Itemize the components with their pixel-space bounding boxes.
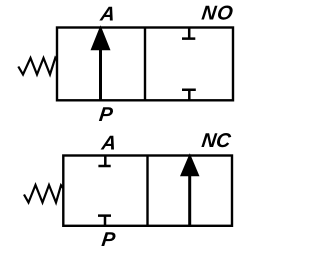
valve NC return spring [24,185,64,203]
valve NC blocked port T bottom [98,215,111,226]
valve NO return spring [18,58,57,75]
valve NO flow arrow shaft [99,48,102,100]
svg-text:NC: NC [200,130,232,152]
svg-text:A: A [98,3,116,25]
valve NO body (2-position box) [57,28,233,101]
valve NC body (2-position box) [63,156,232,226]
valve NC blocked port T top [98,156,110,168]
valve NC flow arrowhead [180,153,200,176]
valve NO center divider [144,28,146,101]
svg-text:NO: NO [200,3,235,25]
svg-text:A: A [99,133,117,155]
valve NC center divider [146,156,148,226]
valve NO flow arrowhead [91,25,111,50]
valve NO blocked port T bottom [182,89,196,100]
svg-text:P: P [98,104,115,126]
valve NO blocked port T top [182,28,195,40]
valve NC flow arrow shaft [188,174,191,226]
svg-text:P: P [100,229,117,250]
